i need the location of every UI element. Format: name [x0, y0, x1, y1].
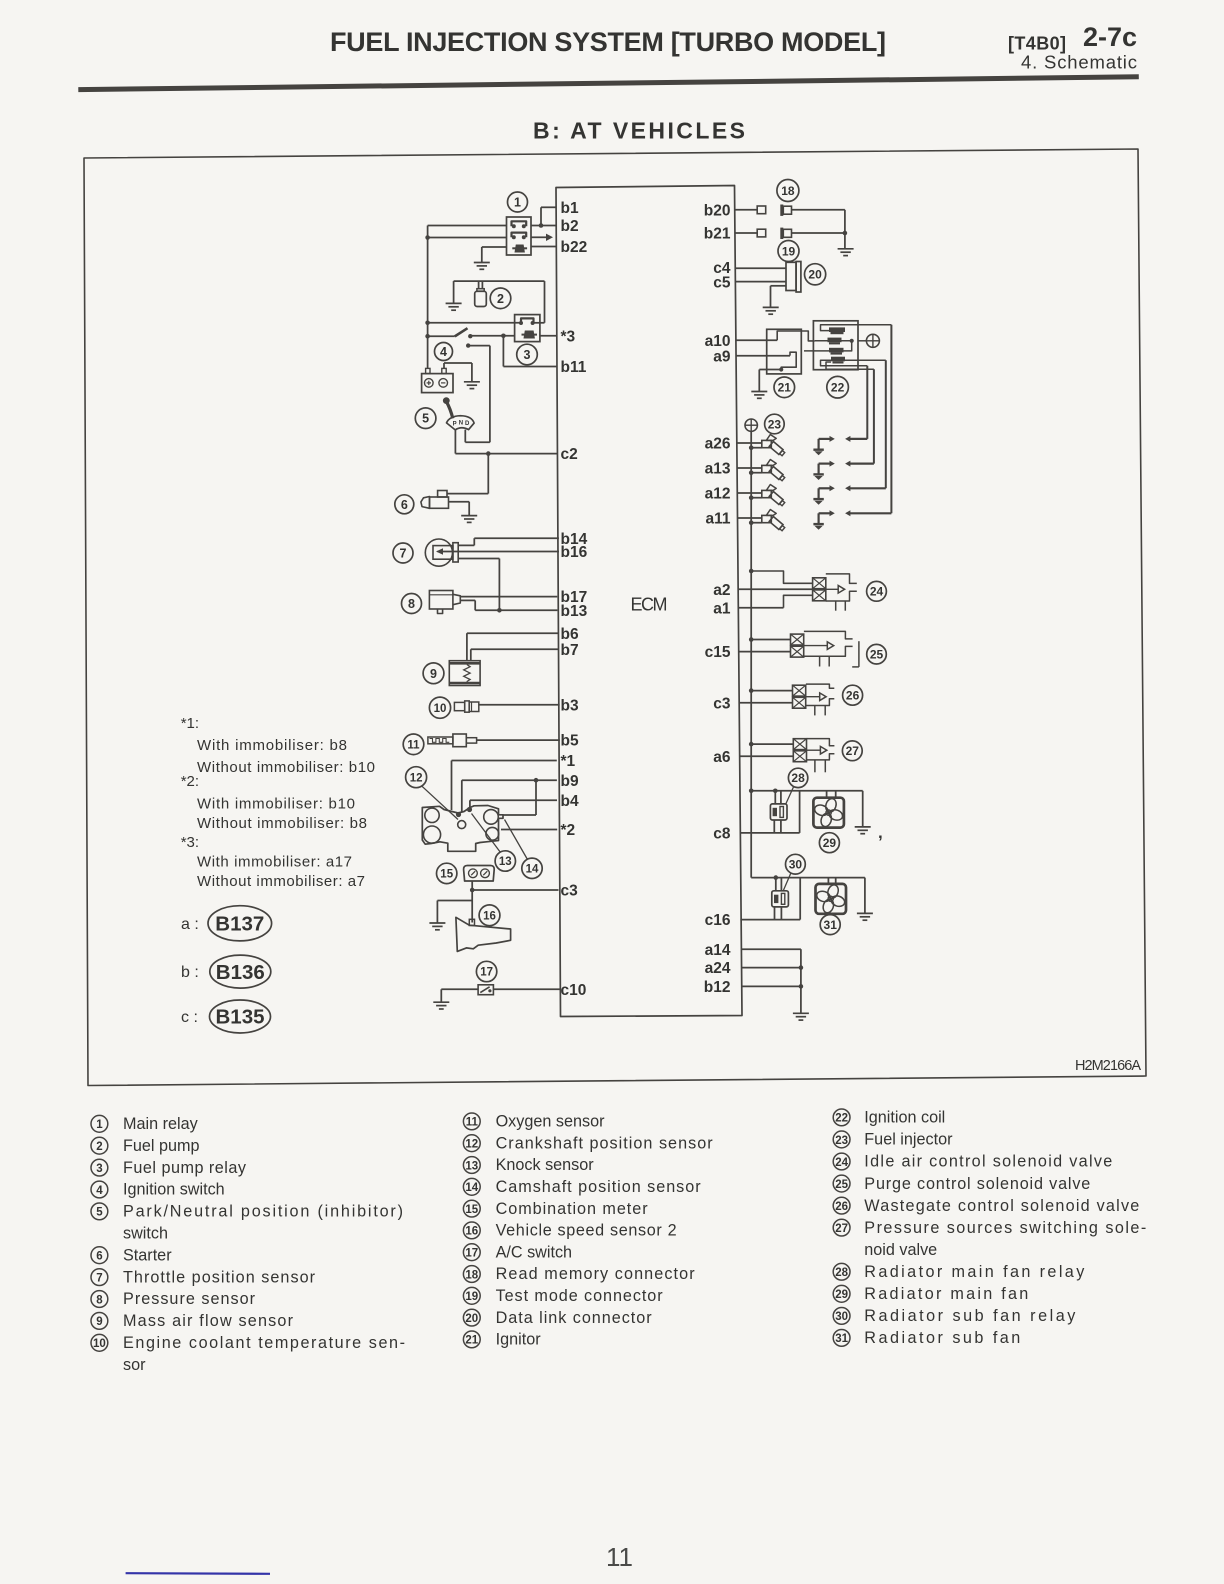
svg-text:*2: *2: [561, 822, 576, 839]
svg-text:a11: a11: [705, 511, 730, 528]
ground (A/C switch): [433, 989, 478, 1009]
svg-text:16: 16: [483, 910, 496, 922]
legend item 6: [91, 1246, 172, 1264]
svg-text:23: 23: [768, 417, 782, 431]
svg-text:b5: b5: [561, 733, 579, 750]
wire arrow continuation (b2 circuit): [428, 234, 553, 241]
pin c16 (ECM right): [705, 912, 731, 929]
wire meter ground branch: [437, 890, 472, 923]
svg-text:,: ,: [878, 823, 883, 842]
wire TPS low to b13: [458, 559, 499, 611]
svg-text:With immobiliser: a17: With immobiliser: a17: [197, 854, 352, 871]
svg-text:10: 10: [434, 703, 447, 715]
svg-text:Fuel injector: Fuel injector: [864, 1131, 953, 1149]
pin b9 (ECM left): [561, 773, 579, 790]
legend item 18: [463, 1265, 695, 1283]
svg-text:26: 26: [846, 689, 860, 703]
wire PNP legs: [455, 430, 465, 454]
svg-text:a6: a6: [713, 749, 731, 766]
pin a6 (ECM right): [713, 749, 731, 766]
wire b22 to main relay coil: [531, 246, 556, 248]
legend item 10: [91, 1334, 405, 1352]
pin b2 (ECM left): [561, 218, 579, 235]
svg-text:b2: b2: [561, 218, 579, 235]
legend item 19: [463, 1287, 663, 1305]
svg-text:c5: c5: [713, 275, 731, 292]
page number: [606, 1542, 633, 1572]
A/C switch 17: [476, 961, 496, 994]
wire b7: [471, 649, 559, 660]
svg-text:Without immobiliser: b8: Without immobiliser: b8: [197, 815, 367, 832]
svg-text:7: 7: [400, 547, 407, 561]
svg-text:27: 27: [835, 1223, 848, 1235]
svg-text:Crankshaft position sensor: Crankshaft position sensor: [496, 1134, 714, 1152]
svg-text:b20: b20: [704, 203, 731, 220]
svg-text:a26: a26: [705, 436, 731, 453]
wire b2 to main relay: [428, 223, 557, 228]
svg-text:Purge control solenoid valve: Purge control solenoid valve: [864, 1175, 1090, 1193]
pin a2 (ECM right): [713, 582, 730, 599]
wire coil secondary 3: [885, 360, 887, 488]
svg-text:7: 7: [96, 1272, 102, 1284]
wire b11: [503, 336, 557, 367]
wire b1 stub: [541, 207, 556, 225]
svg-text:*1: *1: [561, 753, 576, 770]
idle air control solenoid valve 24: [813, 574, 887, 611]
svg-text:11: 11: [606, 1542, 633, 1572]
pressure sources switching solenoid valve 27: [793, 739, 862, 773]
ignitor 21: [767, 329, 815, 397]
svg-text:8: 8: [408, 597, 415, 611]
svg-text:19: 19: [782, 244, 796, 258]
legend item 2: [91, 1137, 199, 1155]
wire coil secondary 1: [866, 366, 868, 439]
ignition switch 4: [428, 328, 473, 360]
knock sensor 13: [472, 814, 516, 872]
legend item cont: [864, 1241, 937, 1259]
mass air flow sensor 9: [423, 661, 480, 686]
svg-text:8: 8: [96, 1294, 103, 1306]
svg-text:*1:: *1:: [181, 715, 199, 732]
wire relay3 contact feed: [428, 322, 521, 324]
svg-text:13: 13: [465, 1160, 478, 1172]
battery + node (ignition coil): [858, 334, 879, 347]
legend item 3: [91, 1159, 247, 1177]
svg-text:With immobiliser: b10: With immobiliser: b10: [197, 796, 355, 813]
legend item cont: [123, 1225, 168, 1243]
wire b21: [735, 231, 847, 249]
svg-text:Oxygen sensor: Oxygen sensor: [496, 1113, 605, 1131]
throttle position sensor 7: [393, 539, 458, 566]
svg-text:Starter: Starter: [123, 1246, 172, 1264]
svg-text:17: 17: [465, 1248, 478, 1260]
svg-text:noid valve: noid valve: [864, 1241, 937, 1259]
pin a10 (ECM right): [705, 333, 731, 350]
wire main fan feed: [751, 789, 863, 804]
svg-text:25: 25: [870, 648, 884, 662]
wire c5: [735, 281, 786, 283]
wire b17: [460, 596, 557, 598]
wire c16: [740, 878, 800, 920]
pin b22 (ECM left): [561, 239, 588, 256]
svg-text:28: 28: [791, 771, 805, 785]
connector a B137: [181, 906, 272, 941]
wire a14/a24/b12 common ground: [741, 949, 803, 1013]
legend item 14: [463, 1178, 701, 1196]
spark plug 4: [813, 510, 891, 529]
pin c5 (ECM right): [713, 275, 731, 292]
ground (18/19 connectors): [838, 249, 854, 256]
ECM U1: [556, 186, 742, 1017]
svg-text:17: 17: [480, 967, 493, 979]
pin *2 (ECM left): [561, 822, 576, 839]
svg-text:3: 3: [524, 348, 531, 362]
pin a13 (ECM right): [705, 461, 731, 478]
wire coil secondary 4: [890, 325, 892, 514]
figure code H2M2166A: [1075, 1058, 1141, 1074]
svg-text:a13: a13: [705, 461, 731, 478]
pin b12 (ECM right): [704, 979, 731, 996]
pressure sensor 8: [402, 591, 461, 614]
ignition coil 22: [804, 321, 891, 398]
svg-text:sor: sor: [123, 1356, 146, 1374]
svg-text:With immobiliser: b8: With immobiliser: b8: [197, 737, 347, 754]
pin b21 (ECM right): [704, 226, 731, 243]
wire valve26 feed: [751, 690, 792, 692]
svg-text:Mass air flow sensor: Mass air flow sensor: [123, 1312, 294, 1330]
pin b14 (ECM left): [561, 531, 588, 548]
wire b5: [477, 739, 560, 741]
svg-text:24: 24: [835, 1157, 848, 1169]
svg-text:Without immobiliser: a7: Without immobiliser: a7: [197, 873, 365, 890]
section title: [533, 118, 745, 144]
svg-text:Ignition switch: Ignition switch: [123, 1181, 225, 1199]
spark plug 1: [813, 436, 867, 455]
svg-text:Combination meter: Combination meter: [496, 1200, 649, 1218]
starter 6: [395, 491, 449, 514]
battery: [422, 368, 453, 392]
svg-text:b22: b22: [561, 239, 588, 256]
pin *1 (ECM left): [561, 753, 576, 770]
wire valve25 feed: [751, 639, 790, 641]
radiator main fan 29: [813, 791, 844, 853]
pin a26 (ECM right): [705, 436, 731, 453]
svg-text:26: 26: [835, 1201, 848, 1213]
svg-text:5: 5: [96, 1207, 103, 1219]
svg-text:c3: c3: [561, 883, 579, 900]
legend item 8: [91, 1290, 256, 1308]
legend item 11: [463, 1113, 605, 1131]
svg-text:10: 10: [93, 1338, 106, 1350]
ground (main relay coil): [474, 247, 507, 269]
camshaft position sensor 14: [505, 820, 543, 879]
wire a2: [738, 588, 824, 590]
svg-text:a :: a :: [181, 916, 199, 933]
radiator sub fan 31: [815, 878, 846, 935]
wire relay3 coil to ignition switch: [470, 334, 514, 339]
legend item 17: [463, 1243, 572, 1261]
svg-text:1: 1: [514, 196, 521, 210]
ground (fuel pump): [446, 281, 462, 310]
wire fuel pump feed: [454, 281, 545, 323]
svg-text:Vehicle speed sensor 2: Vehicle speed sensor 2: [496, 1222, 677, 1240]
wire coil secondary 2: [873, 369, 875, 463]
wire c3: [470, 881, 559, 892]
legend item 26: [833, 1197, 1139, 1215]
injector supply + node: [745, 419, 757, 431]
vehicle speed sensor 2 16: [456, 905, 511, 952]
pin b1 (ECM left): [561, 200, 579, 217]
wire c4: [735, 267, 786, 269]
svg-text:29: 29: [835, 1289, 848, 1301]
svg-text:5: 5: [422, 412, 429, 426]
legend item cont: [123, 1356, 146, 1374]
header rule: [78, 77, 1139, 90]
svg-text:12: 12: [465, 1139, 478, 1151]
svg-text:H2M2166A: H2M2166A: [1075, 1058, 1141, 1074]
svg-text:Test mode connector: Test mode connector: [496, 1287, 664, 1305]
fuel pump 2: [475, 281, 511, 309]
pin c10 (ECM left): [561, 982, 587, 999]
svg-text:a14: a14: [705, 942, 731, 959]
svg-text:a9: a9: [713, 348, 731, 365]
wire c2 branch to starter: [447, 454, 488, 494]
footnote *2: [181, 773, 367, 832]
node battery feed bus: [425, 226, 430, 369]
fuel injector bus: [749, 431, 754, 877]
svg-text:Throttle position sensor: Throttle position sensor: [123, 1268, 316, 1286]
svg-text:a1: a1: [713, 600, 731, 617]
wire *3 to relay3 coil: [540, 335, 557, 337]
svg-text:b21: b21: [704, 226, 731, 243]
svg-text:Idle air control solenoid valv: Idle air control solenoid valve: [864, 1153, 1112, 1171]
svg-text:c15: c15: [705, 644, 731, 661]
legend item 7: [91, 1268, 316, 1286]
legend item 24: [833, 1153, 1112, 1171]
svg-text:b12: b12: [704, 979, 731, 996]
svg-text:b13: b13: [561, 603, 588, 620]
ground (ignitor): [751, 370, 781, 399]
svg-text:4: 4: [96, 1185, 103, 1197]
purge control solenoid valve 25: [791, 631, 887, 667]
radiator sub fan relay 30: [772, 854, 806, 907]
svg-text:21: 21: [778, 381, 792, 395]
page title: [330, 27, 886, 57]
svg-text:Wastegate control solenoid val: Wastegate control solenoid valve: [864, 1197, 1139, 1215]
wire b3: [479, 704, 560, 706]
wire a1: [738, 595, 812, 607]
fuel injector (a11): [737, 510, 785, 532]
legend item 22: [833, 1109, 945, 1127]
svg-text:a10: a10: [705, 333, 731, 350]
wastegate control solenoid valve 26: [793, 684, 863, 715]
svg-text:20: 20: [808, 268, 822, 282]
main relay 1: [507, 192, 532, 255]
svg-text:c3: c3: [713, 695, 731, 712]
svg-text:30: 30: [835, 1311, 848, 1323]
pin *3 (ECM left): [561, 328, 576, 345]
wire c15: [739, 651, 791, 653]
ground (data link connector): [763, 286, 786, 314]
wire b4: [470, 800, 557, 808]
svg-text:2: 2: [497, 292, 504, 306]
legend item 23: [833, 1131, 953, 1149]
svg-text:12: 12: [410, 772, 423, 784]
wire c10: [493, 988, 560, 990]
test mode connector 19: [757, 228, 799, 262]
svg-text:Camshaft position sensor: Camshaft position sensor: [496, 1178, 702, 1196]
fuel injector (a13): [737, 460, 785, 482]
wire c8: [740, 791, 799, 833]
svg-text:a24: a24: [705, 960, 731, 977]
svg-text:*3: *3: [561, 328, 576, 345]
spark plug 3: [813, 485, 885, 504]
fuel injector (a26): [737, 435, 786, 457]
svg-text:18: 18: [781, 184, 795, 198]
svg-text:FUEL INJECTION SYSTEM [TURBO M: FUEL INJECTION SYSTEM [TURBO MODEL]: [330, 27, 886, 57]
svg-text:6: 6: [401, 498, 408, 512]
wire c3 (right): [739, 702, 792, 704]
pin b4 (ECM left): [561, 793, 579, 810]
svg-text:Data link connector: Data link connector: [496, 1309, 653, 1327]
page code [T4B0] 2-7c: [1008, 22, 1137, 73]
footnote *3: [181, 834, 365, 890]
radiator main fan relay 28: [770, 768, 807, 820]
wire b16 (TPS wiper): [436, 548, 559, 554]
svg-text:A/C switch: A/C switch: [496, 1243, 572, 1261]
pin a9 (ECM right): [713, 348, 731, 365]
pin a1 (ECM right): [713, 600, 731, 617]
combination meter 15: [437, 863, 495, 883]
legend item 31: [833, 1329, 1020, 1347]
wire a2 feed (bus to valve 24): [751, 571, 812, 583]
wire c2: [455, 451, 557, 456]
pin c8 (ECM right): [713, 826, 731, 843]
svg-text:22: 22: [835, 1113, 848, 1125]
svg-text:Park/Neutral position (inh: Park/Neutral position (inhibitor): [123, 1203, 403, 1221]
ground (starter): [449, 502, 478, 523]
svg-text:switch: switch: [123, 1225, 168, 1243]
svg-text:a12: a12: [705, 486, 731, 503]
svg-text:Fuel pump: Fuel pump: [123, 1137, 199, 1155]
legend item 15: [463, 1200, 648, 1218]
svg-text:31: 31: [824, 918, 838, 932]
svg-text:c :: c :: [181, 1009, 198, 1026]
svg-text:c10: c10: [561, 982, 587, 999]
pin b7 (ECM left): [561, 642, 579, 659]
wire valve27 feed: [751, 743, 793, 745]
svg-text:P: P: [453, 422, 457, 428]
legend item 4: [91, 1181, 225, 1199]
pin c4 (ECM right): [713, 260, 731, 277]
pin b5 (ECM left): [561, 733, 579, 750]
legend item 16: [463, 1222, 676, 1240]
legend item 12: [463, 1134, 713, 1152]
fuel injector (a12): [737, 485, 785, 507]
svg-text:30: 30: [789, 858, 803, 872]
pin a24 (ECM right): [705, 960, 731, 977]
wire *1: [452, 761, 557, 811]
pin b16 (ECM left): [561, 544, 588, 561]
wire b9: [462, 778, 557, 815]
svg-text:B135: B135: [215, 1006, 264, 1029]
svg-text:23: 23: [835, 1135, 848, 1147]
wire b20: [735, 210, 845, 233]
svg-text:b11: b11: [561, 359, 587, 376]
pin b20 (ECM right): [704, 203, 731, 220]
ground (main fan): [855, 791, 871, 834]
svg-text:16: 16: [465, 1226, 478, 1238]
read memory connector 18: [757, 180, 799, 216]
engine block with sensors: [422, 806, 503, 852]
pin b13 (ECM left): [561, 603, 588, 620]
svg-text:14: 14: [526, 863, 539, 875]
legend item 13: [463, 1156, 594, 1174]
svg-text:28: 28: [835, 1267, 848, 1279]
svg-text:15: 15: [465, 1204, 478, 1216]
wire *2: [501, 829, 557, 831]
legend item 27: [833, 1219, 1146, 1237]
svg-text:4: 4: [440, 345, 447, 359]
svg-text:Knock sensor: Knock sensor: [496, 1156, 595, 1174]
svg-text:ECM: ECM: [631, 595, 668, 615]
wire b6: [467, 633, 559, 661]
wire a10: [736, 339, 777, 341]
svg-text:3: 3: [96, 1163, 102, 1175]
pin c3 (ECM right): [713, 695, 731, 712]
svg-text:Main relay: Main relay: [123, 1115, 199, 1133]
legend item 5: [91, 1203, 403, 1221]
legend item 25: [833, 1175, 1090, 1193]
wire sub fan feed: [751, 875, 865, 891]
svg-text:1: 1: [96, 1119, 103, 1131]
svg-text:Radiator sub fan relay: Radiator sub fan relay: [864, 1307, 1076, 1325]
svg-text:2: 2: [96, 1141, 102, 1153]
svg-text:31: 31: [835, 1333, 848, 1345]
legend item 30: [833, 1307, 1076, 1325]
svg-text:Read memory connector: Read memory connector: [496, 1265, 696, 1283]
svg-text:24: 24: [870, 585, 884, 599]
svg-text:Fuel pump relay: Fuel pump relay: [123, 1159, 247, 1177]
svg-text:b1: b1: [561, 200, 579, 217]
pin b6 (ECM left): [561, 626, 579, 643]
pin c2 (ECM left): [561, 446, 578, 463]
ground (a14/a24/b12): [793, 1013, 809, 1020]
wire b13: [460, 600, 557, 612]
svg-text:Radiator main fan: Radiator main fan: [864, 1285, 1028, 1303]
svg-text:22: 22: [831, 381, 845, 395]
svg-text:2-7c: 2-7c: [1083, 22, 1137, 52]
pin b17 (ECM left): [561, 589, 588, 606]
svg-text:11: 11: [466, 1117, 479, 1129]
footer blue mark: [126, 1572, 270, 1575]
svg-text:B136: B136: [216, 961, 265, 984]
svg-text:*2:: *2:: [181, 773, 199, 790]
svg-text:b16: b16: [561, 544, 588, 561]
pin b11 (ECM left): [561, 359, 587, 376]
wire a9: [736, 355, 790, 357]
svg-text:N: N: [459, 421, 463, 427]
svg-text:Pressure sensor: Pressure sensor: [123, 1290, 256, 1308]
svg-text:B: AT VEHICLES: B: AT VEHICLES: [533, 118, 745, 144]
legend item 9: [91, 1312, 294, 1330]
engine coolant temperature sensor 10: [429, 697, 478, 718]
wire ignition switch ST contact: [465, 346, 490, 443]
svg-text:14: 14: [465, 1182, 478, 1194]
pin b3 (ECM left): [561, 697, 579, 714]
svg-text:27: 27: [846, 744, 860, 758]
svg-text:13: 13: [499, 856, 512, 868]
